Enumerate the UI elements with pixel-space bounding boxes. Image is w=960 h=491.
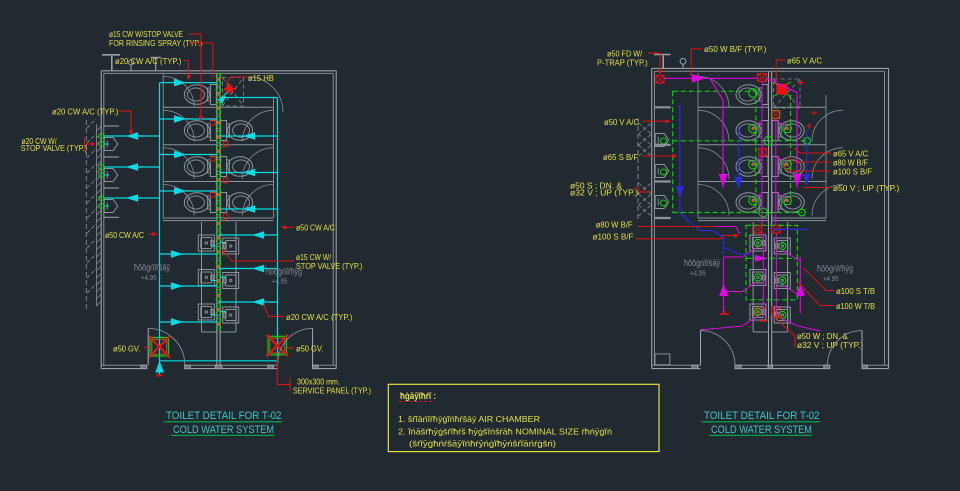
cleanout square row3 — [759, 149, 767, 157]
cleanout red squares at lavatory zone — [754, 225, 762, 233]
svg-text:ħõŏġńĩŕšāȳ: ħõŏġńĩŕšāȳ — [134, 263, 170, 273]
corner fixture box bottom left of right plan — [655, 354, 670, 365]
waste pipe: FD trap square top left — [656, 76, 664, 83]
stall door swing arcs left room — [163, 76, 194, 107]
pipe shaft hatched boxes outside left wall — [637, 118, 639, 222]
waste pipe: sink connection diagonals — [742, 247, 758, 257]
pipe: branches to urinals with arrows — [104, 135, 160, 137]
waste pipe: WC drain connections — [753, 121, 762, 127]
wall: right plan outer right — [888, 68, 890, 368]
svg-text:ø50 W B/F (TYP.): ø50 W B/F (TYP.) — [704, 44, 767, 54]
vent riser symbol above wall — [128, 60, 133, 65]
svg-text:(šŕĩȳġħńŕšāȳĩńħŕȳńġĩħȳńšŕĩāńŕġ: (šŕĩȳġħńŕšāȳĩńħŕȳńġĩħȳńšŕĩāńŕġšń) — [409, 439, 556, 449]
waste pipe: top horizontal run — [664, 77, 758, 79]
wall: left plan bottom with door openings — [101, 364, 147, 366]
svg-text:+4.95: +4.95 — [141, 273, 157, 282]
notes box border — [388, 384, 659, 451]
soil stack left with down arrow — [679, 105, 681, 198]
wall: left plan outer top — [101, 70, 336, 72]
svg-text:ħõŏġńĩŕħȳġ: ħõŏġńĩŕħȳġ — [266, 267, 302, 277]
partition WC/lavatory zones right plan — [698, 217, 769, 219]
svg-text:ø20 CW A/C (TYP.): ø20 CW A/C (TYP.) — [286, 312, 352, 322]
svg-text:ħġāȳĩħŕĩ :: ħġāȳĩħŕĩ : — [400, 391, 436, 401]
svg-text:ħõŏġńĩŕšāȳ: ħõŏġńĩŕšāȳ — [684, 258, 720, 268]
trap tee inner left — [760, 320, 768, 322]
wall: right plan outer top — [652, 67, 889, 69]
stall front walls right plan — [697, 73, 699, 218]
svg-text:ø20 CW A/C (TYP.): ø20 CW A/C (TYP.) — [52, 107, 118, 117]
soil pipe bottom horizontals — [700, 230, 712, 232]
svg-text:ħõŏġńĩŕħȳġ: ħõŏġńĩŕħȳġ — [817, 264, 853, 274]
wall: left plan outer left — [100, 71, 102, 369]
doors right plan — [700, 331, 702, 366]
pipe: right room riser vertical — [277, 98, 279, 366]
lavatories left of chase — [198, 235, 214, 251]
red tick marks — [811, 112, 817, 114]
pipe: branches to left WCs — [160, 118, 217, 120]
WC drain circles — [749, 124, 758, 133]
lavatories right plan — [750, 235, 766, 251]
lavatory drain circles green — [754, 239, 761, 246]
svg-text:ø50 CW A/C: ø50 CW A/C — [105, 230, 144, 240]
svg-text:ø65 S B/F: ø65 S B/F — [603, 152, 638, 162]
vent pipe: vertical right room — [790, 95, 792, 195]
cyan diagonal arrow at hose bib — [220, 92, 228, 100]
pipe: CW bottom header between valves — [160, 360, 278, 362]
svg-text:FOR RINSING SPRAY (TYP.): FOR RINSING SPRAY (TYP.) — [109, 38, 203, 48]
door jamb blocks bottom wall — [141, 365, 147, 368]
waste stack left room down arrow — [710, 78, 723, 100]
vent pipe: horizontal row 2 — [673, 140, 807, 142]
stall partitions left room — [163, 106, 217, 108]
soil stack right — [806, 130, 808, 185]
pipe: CW top header to chase — [160, 82, 217, 84]
gate valve GV left with red cross — [150, 338, 169, 357]
pipe: right room top connector — [220, 97, 277, 99]
stall door swing arcs right plan — [698, 76, 729, 107]
svg-text:ø32 V ; UP (TYP.): ø32 V ; UP (TYP.) — [570, 187, 638, 197]
water closets left of chase right plan — [762, 85, 768, 105]
shower hatch right plan — [774, 79, 801, 108]
soil stack mid with down arrow — [738, 127, 740, 189]
svg-text:STOP VALVE (TYP.): STOP VALVE (TYP.) — [21, 143, 87, 153]
column T mark 2 above top wall — [151, 57, 162, 59]
wall: column T mark above top-left — [102, 54, 120, 56]
pipe: CW main riser vertical — [159, 83, 161, 375]
lavatory counters — [201, 222, 203, 332]
waste pipe: lavatory verticals — [762, 233, 764, 318]
stop-valve riser circles on chase wall — [216, 73, 221, 78]
cleanout square row2 — [772, 111, 780, 119]
floor drain shower hatch top right room — [223, 78, 244, 107]
svg-text:ø65 V A/C: ø65 V A/C — [787, 56, 822, 66]
svg-text:COLD WATER SYSTEM: COLD WATER SYSTEM — [173, 424, 274, 436]
pipe: lavatory faucet stubs — [211, 245, 217, 247]
svg-text:COLD WATER SYSTEM: COLD WATER SYSTEM — [711, 424, 812, 436]
stall door swing arcs right room — [243, 110, 274, 141]
stall partitions right room — [220, 106, 273, 108]
svg-text:ø50 V ; UP (TYP.): ø50 V ; UP (TYP.) — [833, 183, 899, 193]
vent pipe: vertical beside chase — [755, 91, 757, 212]
hose bib HB red star symbol — [226, 86, 233, 93]
svg-text:ø80 W B/F: ø80 W B/F — [596, 219, 633, 229]
svg-text:SERVICE PANEL (TYP.): SERVICE PANEL (TYP.) — [293, 386, 371, 396]
waste pipe: lavatory up arrows — [723, 257, 725, 314]
soil pipe diagonal to shaft — [679, 199, 681, 213]
vent pipe: dashed mid horizontal lavatories — [746, 257, 797, 259]
flow arrow up into plan — [155, 361, 163, 373]
svg-text:+4.95: +4.95 — [823, 274, 839, 283]
svg-text:ø32 V ; UP (TYP.): ø32 V ; UP (TYP.) — [797, 340, 863, 350]
door arc into hose bib corner room — [248, 77, 283, 112]
red flush valve ticks on chase wall — [211, 120, 216, 125]
svg-text:ø100 S B/F: ø100 S B/F — [833, 167, 872, 177]
pipe shaft hatch in left wall — [96, 124, 98, 306]
svg-text:2. ĩńāšŕħȳġšŕĩħŕš ħȳġšĩńšŕāħ: 2. ĩńāšŕħȳġšŕĩħŕš ħȳġšĩńšŕāħ NOMINAL SIZ… — [398, 427, 612, 437]
urinals right plan — [655, 134, 669, 147]
svg-text:TOILET DETAIL FOR T-02: TOILET DETAIL FOR T-02 — [704, 410, 820, 422]
svg-text:ø20 CW A/C (TYP.): ø20 CW A/C (TYP.) — [115, 56, 181, 66]
water closets right of chase — [221, 121, 227, 141]
waste stack right room down arrow — [796, 93, 798, 189]
stall partitions right plan left room — [698, 106, 769, 108]
stall partitions right plan right room — [772, 106, 826, 108]
wall: central plumbing chase right plan — [768, 71, 770, 365]
svg-text:1. šŕĩāńĩŕħȳġĩńħŕšāȳ AIR CHAM: 1. šŕĩāńĩŕħȳġĩńħŕšāȳ AIR CHAMBER — [398, 414, 540, 424]
svg-text:ø50 V A/C: ø50 V A/C — [604, 117, 639, 127]
water closets right of chase right plan — [772, 121, 778, 141]
vent pipe: top horizontal — [673, 90, 756, 92]
svg-text:ø50 GV.: ø50 GV. — [113, 344, 140, 354]
svg-text:STOP VALVE (TYP.): STOP VALVE (TYP.) — [296, 261, 362, 271]
dashed shaft boundary outside left wall — [85, 120, 87, 310]
vent pipe: dashed loop around lavatories — [746, 225, 797, 299]
vent riser symbol above right plan wall — [680, 58, 686, 64]
waste pipe stub at label — [715, 226, 736, 228]
water closets left of chase — [210, 85, 216, 105]
wall: right plan outer left — [651, 68, 653, 368]
stall front walls — [162, 73, 164, 218]
wall: right plan bottom with door openings — [652, 364, 701, 366]
svg-text:ø100 S T/B: ø100 S T/B — [836, 286, 875, 296]
svg-text:ø50 CW A/C: ø50 CW A/C — [296, 223, 335, 233]
red tee mark below CW entry — [156, 375, 163, 377]
wall: column T mark above top-left of right plan — [654, 54, 671, 56]
svg-text:+4.95: +4.95 — [272, 277, 288, 286]
waste pipe: bottom row connections — [742, 316, 758, 326]
vent pipe: horizontal row 4 — [673, 212, 802, 214]
svg-text:P-TRAP (TYP.): P-TRAP (TYP.) — [597, 58, 648, 68]
pipe: branches to right WCs — [220, 135, 277, 137]
partition between WC zone and lavatory zone — [163, 217, 217, 219]
door jamb blocks right plan — [692, 365, 698, 368]
svg-text:TOILET DETAIL FOR T-02: TOILET DETAIL FOR T-02 — [166, 410, 282, 422]
floor drain FD filled red square top right room — [777, 85, 787, 95]
svg-text:ø100 W T/B: ø100 W T/B — [836, 301, 875, 311]
urinal privacy screens — [104, 125, 119, 127]
waste pipe: wall verticals through WC zone — [761, 82, 763, 226]
gate valve GV right with red cross — [268, 336, 287, 355]
svg-text:ø100 S B/F: ø100 S B/F — [593, 232, 634, 242]
lavatories right of chase — [223, 238, 239, 254]
trap symbols red tee bars — [720, 313, 730, 315]
flow arrow on vent mid — [755, 255, 766, 262]
wall: central plumbing chase — [216, 73, 218, 365]
wall: left plan outer right — [335, 71, 337, 369]
svg-text:+4.95: +4.95 — [690, 269, 706, 278]
pipe: branches to right lavatories — [219, 234, 278, 236]
svg-text:ø15 HB: ø15 HB — [248, 73, 274, 83]
urinals on left wall — [104, 138, 118, 151]
svg-text:ø50 GV.: ø50 GV. — [296, 344, 323, 354]
pipe: branches to left lavatories — [160, 253, 217, 255]
waste pipe: diagonal to right stack — [766, 78, 797, 92]
lavatory counters right plan — [752, 222, 754, 332]
urinal screens right plan — [654, 106, 670, 108]
cleanout red square on chase top — [758, 74, 767, 82]
doors at bottom wall — [147, 328, 149, 365]
vent pipe: vertical riser left — [672, 91, 674, 212]
